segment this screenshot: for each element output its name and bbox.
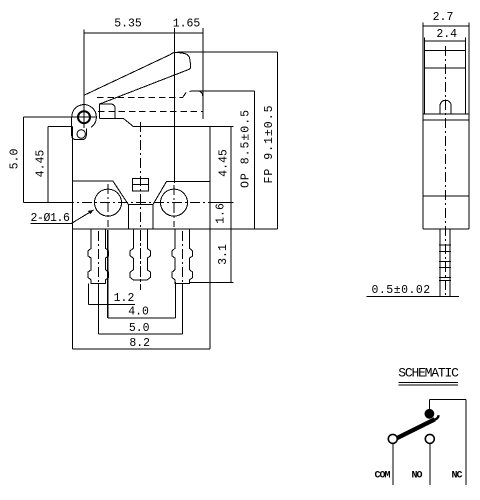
lever free position dashed tip xyxy=(183,91,203,98)
schematic title underline xyxy=(399,383,459,386)
middle vertical centerline xyxy=(139,122,141,290)
dimension 5.0 line (bottom) xyxy=(98,333,182,335)
svg-text:5.35: 5.35 xyxy=(114,18,142,31)
svg-text:2-Ø1.6: 2-Ø1.6 xyxy=(31,212,71,225)
side view band lines xyxy=(423,114,469,120)
schematic NO wire xyxy=(429,444,431,485)
extension line right xyxy=(202,28,204,119)
leader line xyxy=(71,210,94,224)
svg-text:2.7: 2.7 xyxy=(433,11,454,24)
side view centerline xyxy=(445,46,447,298)
hole right xyxy=(161,189,188,216)
svg-text:SCHEMATIC: SCHEMATIC xyxy=(398,366,459,381)
side view pin xyxy=(440,229,450,296)
schematic pivot dot xyxy=(425,409,435,419)
hole left vertical centerline xyxy=(107,184,109,227)
pivot pin circle xyxy=(78,111,90,123)
side view bottom line xyxy=(423,228,469,230)
schematic COM contact circle xyxy=(388,434,397,443)
body right edge + 8.2 extension xyxy=(209,126,211,348)
hole right vertical centerline xyxy=(173,185,175,227)
side view dimension 2.4 xyxy=(425,38,466,45)
side view arch xyxy=(440,100,451,114)
schematic NO contact circle xyxy=(425,434,434,443)
leader arrowhead xyxy=(88,210,94,214)
terminal right centerline xyxy=(182,231,184,283)
body top step xyxy=(99,118,133,126)
pivot mount nub xyxy=(77,130,85,138)
svg-text:COM: COM xyxy=(375,471,391,482)
side view mid line xyxy=(423,195,469,197)
dimension 8.2 line xyxy=(72,348,210,350)
terminal right xyxy=(172,229,193,283)
side view cap top xyxy=(425,49,466,51)
pivot outer arc xyxy=(72,105,96,128)
holes horizontal centerline xyxy=(64,202,211,204)
side view dimension 2.7 xyxy=(423,23,469,30)
plunger box xyxy=(133,179,149,191)
extension 5.0 right xyxy=(182,283,184,334)
schematic NC wire xyxy=(465,399,467,485)
svg-text:NC: NC xyxy=(452,471,463,482)
OP dimension line xyxy=(253,91,255,229)
tick at terminal bottom right xyxy=(189,282,234,284)
svg-text:4.45: 4.45 xyxy=(35,150,48,178)
side view cap right xyxy=(465,44,467,114)
terminal middle xyxy=(130,229,150,280)
dimension 5.35/1.65 line xyxy=(84,30,203,37)
extension line mid (through lever tip to body) xyxy=(174,28,176,183)
datum baseline xyxy=(366,295,459,297)
hole left xyxy=(95,189,122,216)
svg-text:1.6: 1.6 xyxy=(214,203,227,224)
lever bottom edge xyxy=(99,69,189,104)
svg-text:OP 8.5±0.5: OP 8.5±0.5 xyxy=(240,109,253,188)
body left edge xyxy=(71,126,73,229)
terminal left xyxy=(88,229,109,283)
pivot mount left and tab xyxy=(72,113,87,140)
body bottom line + tick to FP xyxy=(72,228,277,230)
tick at hole centerline right xyxy=(211,202,233,204)
side view outer right edge xyxy=(468,29,470,229)
OP reference line xyxy=(195,90,254,92)
svg-text:1.65: 1.65 xyxy=(173,18,201,31)
lever tip xyxy=(170,52,191,69)
dimension 4.0 line xyxy=(108,317,176,319)
leader underline xyxy=(31,223,72,225)
svg-text:5.0: 5.0 xyxy=(9,149,22,170)
terminal left centerline xyxy=(97,231,99,283)
lever free position dashed top xyxy=(97,97,183,99)
tick at body top right xyxy=(210,125,234,127)
svg-text:5.0: 5.0 xyxy=(129,322,150,335)
extension terminal right edge thick xyxy=(107,230,109,318)
FP reference line xyxy=(178,51,278,53)
extension 5.0 left xyxy=(97,283,99,334)
schematic COM wire xyxy=(392,444,394,485)
dimension 5.0 line (left) xyxy=(24,117,97,202)
body top edge xyxy=(133,125,210,127)
side view cap line2 xyxy=(425,67,466,69)
svg-text:FP 9.1±0.5: FP 9.1±0.5 xyxy=(263,104,276,183)
schematic top wire xyxy=(430,398,467,400)
extension 4.0 right xyxy=(174,282,176,318)
svg-text:8.2: 8.2 xyxy=(129,337,150,350)
svg-text:4.0: 4.0 xyxy=(128,306,149,319)
lever top edge xyxy=(84,55,171,96)
side view outer left edge xyxy=(422,29,424,229)
svg-text:4.45: 4.45 xyxy=(217,149,230,177)
svg-text:3.1: 3.1 xyxy=(217,244,230,265)
dimension 4.45 line (left) xyxy=(48,126,72,202)
schematic stub to pivot xyxy=(429,399,431,410)
plunger channel verticals xyxy=(128,204,153,229)
extension for 1.2 left xyxy=(87,283,89,304)
lever free position dashed bottom xyxy=(98,110,203,112)
svg-text:NO: NO xyxy=(412,471,423,482)
extension 8.2 left xyxy=(71,229,73,349)
dimension 1.2 line xyxy=(88,303,135,305)
extension line left (through pivot) xyxy=(83,30,85,129)
svg-text:1.2: 1.2 xyxy=(114,292,135,305)
lever bump at pivot xyxy=(99,104,115,118)
side view pin crimp ticks xyxy=(439,245,451,281)
body inner shelf left xyxy=(72,181,210,204)
FP dimension line xyxy=(276,52,278,229)
plunger box divider xyxy=(133,184,149,186)
svg-text:0.5±0.02: 0.5±0.02 xyxy=(372,284,431,297)
side view cap left xyxy=(424,44,426,114)
svg-text:2.4: 2.4 xyxy=(436,28,457,41)
terminal middle centerline xyxy=(139,231,141,290)
schematic lever xyxy=(397,419,435,438)
dimension column right: 4.45/1.6/3.1 vertical xyxy=(230,126,232,282)
